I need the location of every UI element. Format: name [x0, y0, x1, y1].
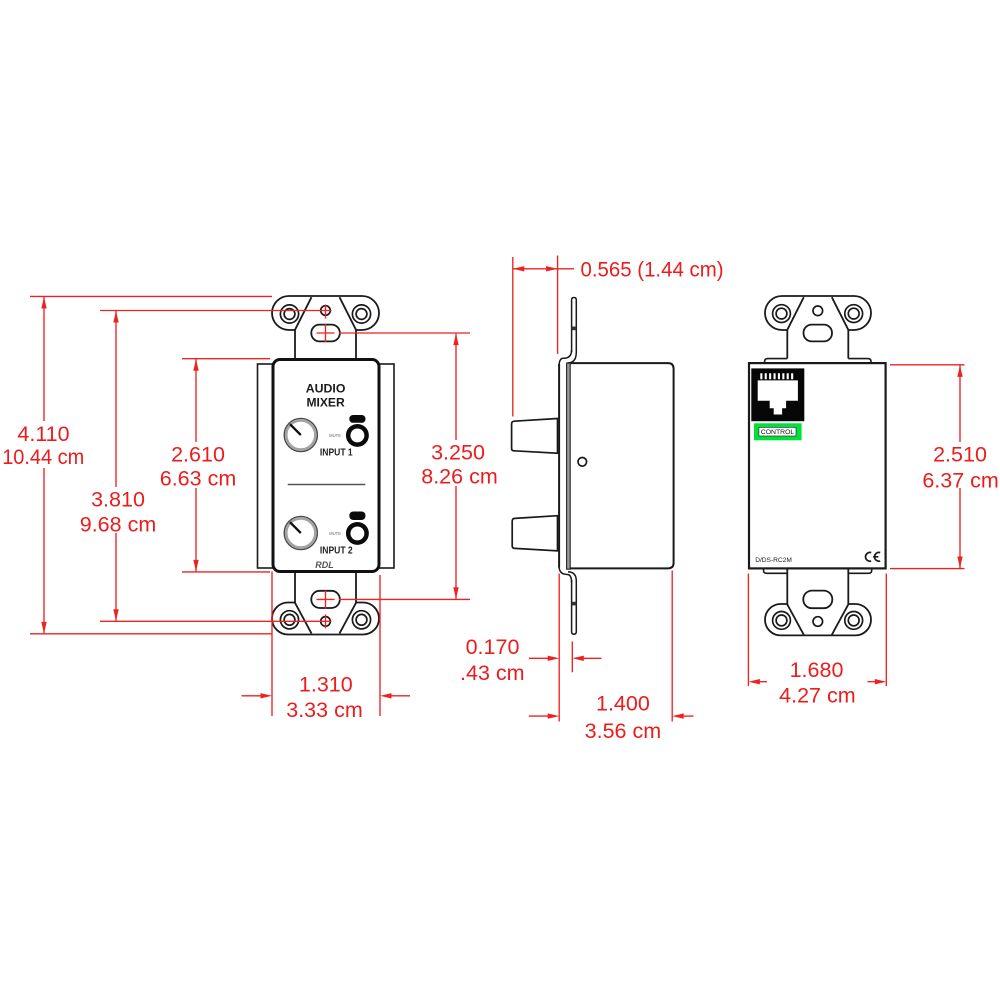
rear bottom bracket right screw hole [845, 612, 863, 630]
svg-text:0.565 (1.44 cm): 0.565 (1.44 cm) [581, 257, 724, 281]
svg-text:1.310: 1.310 [299, 672, 353, 696]
mute button 2 [348, 524, 366, 542]
dimension 0.170 extension lines [558, 574, 560, 722]
dimension 4.110 line [43, 297, 45, 633]
svg-text:2.610: 2.610 [171, 443, 225, 467]
dimension 4.110 text [14, 421, 74, 468]
rear top bracket right screw hole [845, 305, 863, 323]
dimension 0.170 arrows [529, 657, 548, 659]
side enclosure screw [578, 458, 587, 467]
svg-text:CONTROL: CONTROL [761, 430, 795, 436]
dimension 2.610 extension lines [182, 358, 270, 360]
dimension 2.510 line [959, 365, 961, 568]
side top strap jog [559, 350, 576, 366]
front bottom plate screw hole [321, 617, 331, 627]
divider line [288, 484, 366, 486]
svg-text:4.110: 4.110 [17, 422, 69, 446]
CONTROL green label [754, 423, 802, 440]
svg-text:RDL: RDL [315, 560, 334, 570]
front bottom mounting slot [311, 591, 340, 608]
svg-text:MUTE: MUTE [329, 531, 341, 536]
side bottom strap jog [559, 566, 576, 583]
svg-text:6.37 cm: 6.37 cm [922, 468, 998, 492]
rear bottom mounting slot [803, 591, 832, 609]
front slot center marks [325, 324, 327, 342]
svg-text:INPUT 1: INPUT 1 [320, 448, 353, 459]
front top bracket left screw hole [280, 305, 298, 323]
front top mounting slot [311, 325, 340, 342]
rear enclosure body [749, 363, 886, 568]
side bottom strap slot (edge view) [572, 602, 577, 606]
dimension 3.810 text [88, 487, 146, 533]
svg-text:8.26 cm: 8.26 cm [421, 465, 497, 489]
rear top plate screw hole [813, 306, 823, 316]
svg-text:INPUT 2: INPUT 2 [320, 546, 353, 557]
svg-text:0.170: 0.170 [466, 635, 520, 659]
side bottom mounting strap [572, 580, 577, 634]
svg-text:3.33 cm: 3.33 cm [286, 698, 362, 722]
knob INPUT 1 [284, 418, 317, 451]
svg-text:3.250: 3.250 [431, 441, 485, 465]
svg-text:MIXER: MIXER [306, 395, 344, 409]
front top mounting bracket outline [272, 296, 379, 361]
rear bottom mounting bracket outline [765, 568, 871, 635]
side top mounting strap [572, 298, 577, 354]
rear top bracket left screw hole [773, 305, 791, 323]
mute LED 2 [349, 512, 365, 521]
rear top yoke shoulder right [848, 359, 871, 364]
front left side tab [258, 364, 274, 568]
dimension 1.680 extension lines [747, 574, 749, 687]
svg-text:3.56 cm: 3.56 cm [585, 719, 661, 743]
dimension 3.250 line [455, 334, 457, 599]
svg-text:6.63 cm: 6.63 cm [160, 467, 236, 491]
svg-text:AUDIO: AUDIO [306, 381, 346, 395]
rear bottom yoke shoulder left [764, 569, 788, 574]
svg-text:.43 cm: .43 cm [460, 661, 525, 685]
front bottom mounting bracket outline [272, 571, 379, 635]
CONTROL white text box [759, 427, 796, 436]
front plate hole center marks [325, 305, 327, 319]
svg-text:3.810: 3.810 [91, 488, 145, 512]
AUDIO MIXER label [306, 381, 346, 409]
dimension 3.250 text [428, 440, 490, 486]
side rear enclosure box [569, 363, 674, 568]
knob INPUT 2 [284, 516, 317, 549]
front bottom bracket left screw hole [280, 611, 298, 629]
CE mark [865, 552, 880, 561]
svg-text:1.680: 1.680 [790, 658, 844, 682]
RJ45 jack opening [758, 373, 798, 414]
RJ45 jack body [751, 368, 804, 421]
rear top mounting slot [804, 325, 833, 342]
rear top mounting bracket outline [765, 296, 871, 359]
svg-text:MUTE: MUTE [329, 433, 341, 438]
dimension 0.565 line [513, 268, 558, 270]
rear bottom yoke shoulder right [848, 569, 871, 574]
svg-text:4.27 cm: 4.27 cm [779, 683, 855, 707]
dimension 0.565 extension lines [512, 257, 514, 417]
rear top yoke shoulder left [765, 359, 788, 364]
front top plate screw hole [321, 306, 331, 316]
front faceplate [273, 360, 379, 572]
side retaining clip lower [512, 516, 557, 551]
svg-text:2.510: 2.510 [933, 442, 987, 466]
dimension 2.510 extension lines [890, 364, 965, 366]
dimension 2.610 line [195, 359, 197, 571]
dimension 1.680 arrows [748, 679, 760, 684]
side retaining clip upper [512, 419, 558, 454]
side yoke flange front edge [558, 364, 560, 568]
dimension 2.510 text [930, 442, 992, 488]
rear bottom plate screw hole [813, 617, 823, 627]
mute LED 1 [349, 415, 365, 423]
dimension 1.310 arrows [242, 695, 262, 697]
dimension 2.610 text [168, 442, 226, 488]
mute button 1 [348, 426, 366, 444]
svg-text:1.400: 1.400 [596, 692, 650, 716]
dimension 3.810 line [115, 311, 117, 621]
svg-text:9.68 cm: 9.68 cm [80, 513, 156, 537]
rear bottom bracket left screw hole [773, 612, 791, 630]
dimension 3.250 extension lines [339, 332, 470, 334]
svg-text:D/DS-RC2M: D/DS-RC2M [755, 557, 792, 564]
front bottom bracket right screw hole [352, 611, 370, 629]
front right side tab [379, 364, 395, 568]
dimension 1.400 extension line [671, 571, 673, 722]
side top strap slot (edge view) [572, 327, 577, 331]
dimension 3.810 extension lines [100, 310, 332, 312]
svg-text:10.44 cm: 10.44 cm [2, 445, 84, 469]
side faceplate cross-section [567, 363, 571, 569]
dimension 1.400 arrows [529, 715, 548, 717]
dimension 4.110 extension lines [30, 295, 272, 297]
dimension 1.310 extension lines [271, 572, 273, 717]
front top bracket right screw hole [352, 305, 370, 323]
